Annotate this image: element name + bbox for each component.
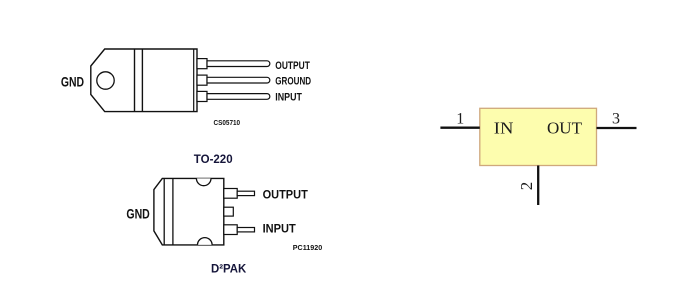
svg-text:OUTPUT: OUTPUT [275, 60, 310, 72]
svg-text:INPUT: INPUT [275, 91, 302, 103]
D2PAK body divider line left [163, 178, 165, 245]
svg-text:1: 1 [456, 111, 464, 128]
regulator block U3 [480, 108, 597, 165]
D2PAK top notch [196, 178, 211, 185]
pin INPUT lead (D2PAK) [237, 228, 254, 232]
svg-text:TO-220: TO-220 [194, 152, 233, 166]
TO-220 body divider line left [134, 49, 136, 112]
pin 2 GROUND stub (TO-220) [197, 75, 207, 85]
svg-text:2: 2 [517, 182, 536, 191]
svg-text:IN: IN [494, 119, 514, 138]
wire pin 3 (output) [597, 127, 637, 129]
TO-220 mounting hole [97, 72, 114, 89]
D2PAK package outline U2 [154, 178, 224, 245]
svg-text:OUTPUT: OUTPUT [263, 188, 309, 202]
wire pin 2 (ground) [537, 166, 539, 206]
svg-text:3: 3 [612, 111, 620, 128]
svg-text:D²PAK: D²PAK [211, 261, 247, 275]
pin 2 GROUND lead (TO-220) [207, 77, 270, 83]
pin OUTPUT stub (D2PAK) [224, 189, 237, 199]
svg-text:PC11920: PC11920 [293, 245, 322, 252]
svg-text:CS05710: CS05710 [214, 120, 241, 127]
pin 3 INPUT lead (TO-220) [207, 94, 270, 100]
TO-220 body divider line right [141, 49, 143, 112]
wire pin 1 (input) [440, 127, 479, 129]
pin 1 OUTPUT stub (TO-220) [197, 59, 207, 69]
TO-220 package outline U1 [91, 49, 197, 112]
D2PAK body divider line right [172, 178, 174, 245]
svg-text:INPUT: INPUT [263, 221, 297, 235]
svg-text:OUT: OUT [547, 119, 583, 138]
pin INPUT stub (D2PAK) [224, 225, 237, 235]
middle tab stub (D2PAK) [224, 207, 234, 216]
D2PAK bottom notch [198, 238, 213, 245]
TO-220 body edge inner line [193, 49, 195, 112]
svg-text:GND: GND [61, 74, 84, 90]
pin 3 INPUT stub (TO-220) [197, 91, 207, 101]
pin OUTPUT lead (D2PAK) [237, 191, 254, 195]
svg-text:GROUND: GROUND [275, 76, 311, 88]
pin 1 OUTPUT lead (TO-220) [207, 61, 270, 67]
svg-text:GND: GND [126, 205, 149, 221]
